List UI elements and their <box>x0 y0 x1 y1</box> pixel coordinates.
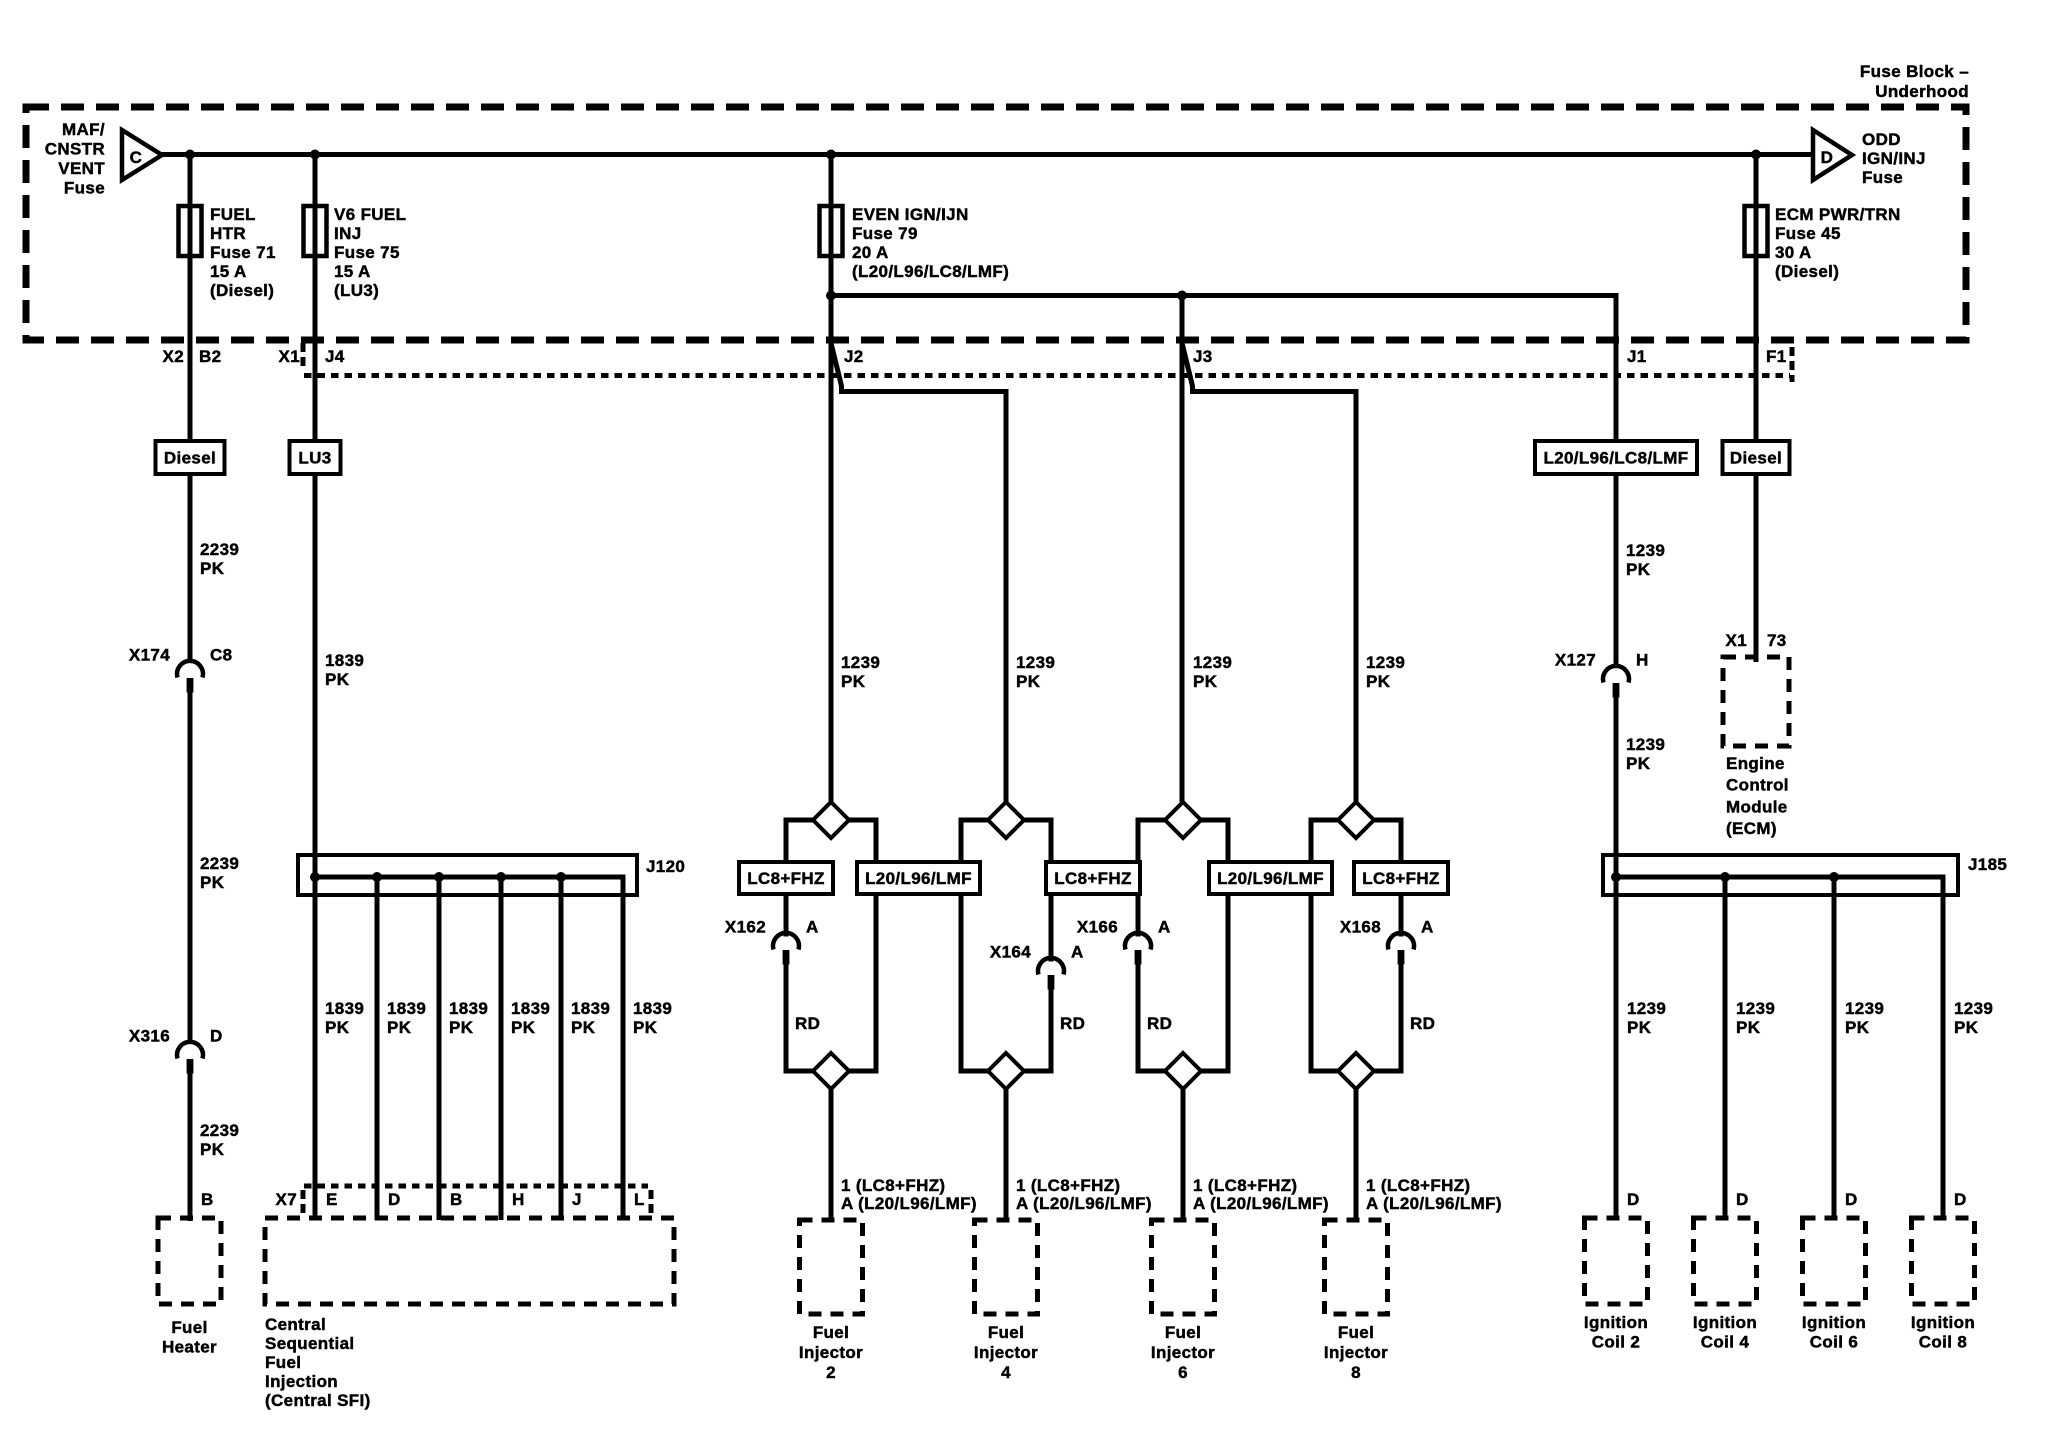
svg-text:1839: 1839 <box>387 999 426 1018</box>
svg-text:VENT: VENT <box>58 159 105 178</box>
svg-text:A (L20/L96/LMF): A (L20/L96/LMF) <box>1193 1194 1329 1213</box>
svg-text:D: D <box>1954 1190 1967 1209</box>
svg-text:20 A: 20 A <box>852 243 889 262</box>
svg-text:4: 4 <box>1001 1363 1011 1382</box>
svg-text:1839: 1839 <box>325 999 364 1018</box>
svg-text:1839: 1839 <box>511 999 550 1018</box>
svg-text:Fuel: Fuel <box>1338 1323 1374 1342</box>
svg-text:RD: RD <box>1147 1014 1172 1033</box>
svg-text:15 A: 15 A <box>334 262 371 281</box>
svg-text:PK: PK <box>1954 1018 1979 1037</box>
svg-text:V6 FUEL: V6 FUEL <box>334 205 406 224</box>
svg-text:Ignition: Ignition <box>1911 1313 1975 1332</box>
svg-text:8: 8 <box>1351 1363 1361 1382</box>
svg-text:B: B <box>450 1190 463 1209</box>
svg-text:1239: 1239 <box>1193 653 1232 672</box>
svg-text:D: D <box>1845 1190 1858 1209</box>
svg-text:A (L20/L96/LMF): A (L20/L96/LMF) <box>1366 1194 1502 1213</box>
svg-text:L20/L96/LMF: L20/L96/LMF <box>1217 869 1324 888</box>
svg-text:PK: PK <box>1366 672 1391 691</box>
svg-text:X7: X7 <box>276 1190 298 1209</box>
svg-text:A (L20/L96/LMF): A (L20/L96/LMF) <box>1016 1194 1152 1213</box>
svg-text:HTR: HTR <box>210 224 246 243</box>
svg-text:73: 73 <box>1767 631 1787 650</box>
svg-text:1 (LC8+FHZ): 1 (LC8+FHZ) <box>841 1176 945 1195</box>
svg-text:Fuel: Fuel <box>988 1323 1024 1342</box>
svg-text:PK: PK <box>1736 1018 1761 1037</box>
svg-text:(Diesel): (Diesel) <box>1775 262 1839 281</box>
svg-text:LC8+FHZ: LC8+FHZ <box>1054 869 1132 888</box>
svg-text:1 (LC8+FHZ): 1 (LC8+FHZ) <box>1366 1176 1470 1195</box>
svg-text:ECM PWR/TRN: ECM PWR/TRN <box>1775 205 1901 224</box>
svg-text:PK: PK <box>841 672 866 691</box>
svg-text:(Central SFI): (Central SFI) <box>265 1391 371 1410</box>
svg-text:PK: PK <box>449 1018 474 1037</box>
svg-text:Heater: Heater <box>162 1338 217 1357</box>
svg-text:L20/L96/LMF: L20/L96/LMF <box>865 869 972 888</box>
svg-text:PK: PK <box>325 670 350 689</box>
svg-text:1239: 1239 <box>1016 653 1055 672</box>
svg-text:LU3: LU3 <box>298 449 331 468</box>
svg-text:PK: PK <box>511 1018 536 1037</box>
svg-text:MAF/: MAF/ <box>62 120 105 139</box>
svg-text:Injector: Injector <box>799 1343 863 1362</box>
svg-text:PK: PK <box>1627 1018 1652 1037</box>
svg-text:Injector: Injector <box>1324 1343 1388 1362</box>
svg-text:Control: Control <box>1726 776 1789 795</box>
svg-text:Fuel: Fuel <box>265 1353 301 1372</box>
svg-text:PK: PK <box>571 1018 596 1037</box>
svg-text:Coil 8: Coil 8 <box>1919 1333 1967 1352</box>
svg-text:Fuse Block –: Fuse Block – <box>1860 62 1969 81</box>
svg-text:Coil 6: Coil 6 <box>1810 1333 1858 1352</box>
svg-text:D: D <box>1627 1190 1640 1209</box>
svg-text:Sequential: Sequential <box>265 1334 354 1353</box>
svg-text:LC8+FHZ: LC8+FHZ <box>1362 869 1440 888</box>
svg-text:1239: 1239 <box>1366 653 1405 672</box>
svg-text:J: J <box>572 1190 582 1209</box>
svg-text:Fuse: Fuse <box>64 179 105 198</box>
svg-text:2239: 2239 <box>200 1121 239 1140</box>
svg-text:Fuel: Fuel <box>171 1318 207 1337</box>
svg-text:PK: PK <box>1845 1018 1870 1037</box>
svg-text:1839: 1839 <box>571 999 610 1018</box>
svg-text:D: D <box>388 1190 401 1209</box>
svg-text:Injector: Injector <box>974 1343 1038 1362</box>
svg-text:INJ: INJ <box>334 224 362 243</box>
svg-text:X168: X168 <box>1340 918 1381 937</box>
svg-text:J120: J120 <box>646 857 685 876</box>
svg-text:Injection: Injection <box>265 1372 338 1391</box>
svg-text:J4: J4 <box>325 347 345 366</box>
svg-text:FUEL: FUEL <box>210 205 256 224</box>
svg-text:2239: 2239 <box>200 540 239 559</box>
svg-text:PK: PK <box>1626 754 1651 773</box>
svg-text:EVEN IGN/IJN: EVEN IGN/IJN <box>852 205 969 224</box>
svg-text:(ECM): (ECM) <box>1726 819 1777 838</box>
svg-text:Fuel: Fuel <box>1165 1323 1201 1342</box>
svg-text:Diesel: Diesel <box>164 449 216 468</box>
svg-text:2: 2 <box>826 1363 836 1382</box>
svg-text:1239: 1239 <box>1845 999 1884 1018</box>
svg-text:Module: Module <box>1726 797 1788 816</box>
svg-text:J3: J3 <box>1193 347 1213 366</box>
svg-text:Engine: Engine <box>1726 754 1785 773</box>
svg-text:RD: RD <box>795 1014 820 1033</box>
svg-text:Fuel: Fuel <box>813 1323 849 1342</box>
svg-text:D: D <box>1821 148 1834 167</box>
svg-text:X1: X1 <box>279 347 301 366</box>
svg-text:X162: X162 <box>725 918 766 937</box>
svg-text:6: 6 <box>1178 1363 1188 1382</box>
svg-text:F1: F1 <box>1766 347 1787 366</box>
svg-text:A: A <box>1421 918 1434 937</box>
svg-text:LC8+FHZ: LC8+FHZ <box>747 869 825 888</box>
svg-text:(Diesel): (Diesel) <box>210 281 274 300</box>
svg-text:A: A <box>1071 943 1084 962</box>
svg-text:PK: PK <box>387 1018 412 1037</box>
svg-text:D: D <box>210 1027 223 1046</box>
svg-text:PK: PK <box>1193 672 1218 691</box>
svg-text:E: E <box>326 1190 338 1209</box>
svg-text:1 (LC8+FHZ): 1 (LC8+FHZ) <box>1016 1176 1120 1195</box>
svg-text:Fuse 79: Fuse 79 <box>852 224 918 243</box>
svg-text:H: H <box>512 1190 525 1209</box>
svg-text:Coil 4: Coil 4 <box>1701 1333 1750 1352</box>
svg-text:1239: 1239 <box>1736 999 1775 1018</box>
svg-text:1239: 1239 <box>841 653 880 672</box>
svg-text:C: C <box>130 148 143 167</box>
svg-text:X1: X1 <box>1726 631 1748 650</box>
svg-text:Underhood: Underhood <box>1875 82 1969 101</box>
svg-text:PK: PK <box>200 559 225 578</box>
svg-text:2239: 2239 <box>200 854 239 873</box>
svg-text:Ignition: Ignition <box>1584 1313 1648 1332</box>
svg-text:PK: PK <box>200 873 225 892</box>
svg-text:Fuse 75: Fuse 75 <box>334 243 400 262</box>
svg-text:Fuse: Fuse <box>1862 168 1903 187</box>
svg-text:15 A: 15 A <box>210 262 247 281</box>
svg-text:1239: 1239 <box>1626 735 1665 754</box>
svg-text:(LU3): (LU3) <box>334 281 379 300</box>
svg-text:1239: 1239 <box>1627 999 1666 1018</box>
svg-text:H: H <box>1636 651 1649 670</box>
svg-text:RD: RD <box>1410 1014 1435 1033</box>
svg-text:L20/L96/LC8/LMF: L20/L96/LC8/LMF <box>1543 449 1688 468</box>
svg-text:X2: X2 <box>163 347 185 366</box>
svg-text:Ignition: Ignition <box>1802 1313 1866 1332</box>
svg-text:Fuse 45: Fuse 45 <box>1775 224 1841 243</box>
svg-text:CNSTR: CNSTR <box>45 140 105 159</box>
svg-text:X166: X166 <box>1077 918 1118 937</box>
svg-text:ODD: ODD <box>1862 130 1901 149</box>
svg-text:A (L20/L96/LMF): A (L20/L96/LMF) <box>841 1194 977 1213</box>
svg-text:PK: PK <box>200 1140 225 1159</box>
svg-text:Diesel: Diesel <box>1730 449 1782 468</box>
svg-text:J2: J2 <box>844 347 864 366</box>
svg-text:B2: B2 <box>199 347 221 366</box>
svg-text:X164: X164 <box>990 943 1031 962</box>
svg-text:B: B <box>201 1190 214 1209</box>
svg-text:1239: 1239 <box>1954 999 1993 1018</box>
svg-text:1239: 1239 <box>1626 541 1665 560</box>
svg-text:Fuse 71: Fuse 71 <box>210 243 276 262</box>
svg-text:1839: 1839 <box>633 999 672 1018</box>
svg-text:1839: 1839 <box>325 651 364 670</box>
svg-text:1839: 1839 <box>449 999 488 1018</box>
svg-text:Injector: Injector <box>1151 1343 1215 1362</box>
svg-text:X127: X127 <box>1555 651 1596 670</box>
svg-text:PK: PK <box>1016 672 1041 691</box>
svg-text:Central: Central <box>265 1315 326 1334</box>
svg-text:X316: X316 <box>129 1027 170 1046</box>
svg-text:IGN/INJ: IGN/INJ <box>1862 149 1926 168</box>
svg-text:PK: PK <box>633 1018 658 1037</box>
svg-text:A: A <box>1158 918 1171 937</box>
svg-text:C8: C8 <box>210 646 232 665</box>
svg-text:PK: PK <box>325 1018 350 1037</box>
svg-text:X174: X174 <box>129 646 170 665</box>
svg-text:J185: J185 <box>1968 855 2007 874</box>
svg-text:A: A <box>806 918 819 937</box>
svg-text:(L20/L96/LC8/LMF): (L20/L96/LC8/LMF) <box>852 262 1009 281</box>
svg-text:Coil 2: Coil 2 <box>1592 1333 1640 1352</box>
svg-text:RD: RD <box>1060 1014 1085 1033</box>
svg-text:30 A: 30 A <box>1775 243 1812 262</box>
svg-text:1 (LC8+FHZ): 1 (LC8+FHZ) <box>1193 1176 1297 1195</box>
svg-text:J1: J1 <box>1627 347 1647 366</box>
svg-text:Ignition: Ignition <box>1693 1313 1757 1332</box>
svg-text:D: D <box>1736 1190 1749 1209</box>
svg-text:L: L <box>634 1190 645 1209</box>
svg-text:PK: PK <box>1626 560 1651 579</box>
